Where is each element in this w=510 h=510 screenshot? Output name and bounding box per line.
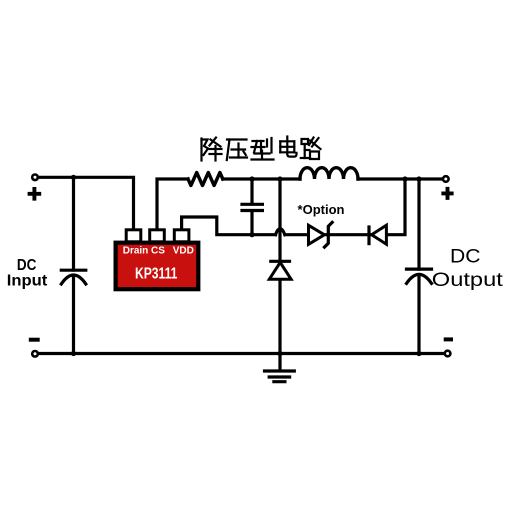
svg-text:KP3111: KP3111 [135,265,178,282]
svg-text:VDD: VDD [173,245,194,256]
svg-text:CS: CS [151,245,165,256]
svg-text:Input: Input [7,272,48,289]
svg-text:DC: DC [450,246,481,268]
svg-text:Output: Output [432,269,504,291]
svg-text:*Option: *Option [298,203,345,217]
svg-text:Drain: Drain [123,245,149,256]
